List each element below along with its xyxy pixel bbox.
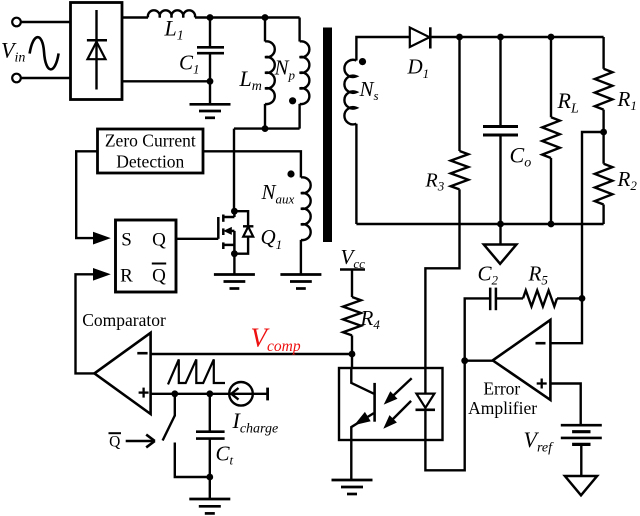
wire R2 bottom lead bbox=[602, 205, 604, 225]
switch blade bbox=[163, 416, 175, 441]
wire Co bottom lead bbox=[499, 135, 501, 224]
ground Vref triangle bbox=[565, 476, 597, 495]
svg-text:R5: R5 bbox=[528, 262, 549, 288]
wire R3 top lead bbox=[458, 37, 460, 151]
svg-text:Q: Q bbox=[152, 230, 166, 251]
ground under Naux bbox=[280, 275, 321, 289]
wire ZCD to S input bbox=[76, 151, 97, 238]
wire switch top lead bbox=[174, 394, 176, 416]
svg-text:R4: R4 bbox=[360, 306, 381, 332]
wire R4 to opto bbox=[351, 335, 353, 368]
wire drain vertical bbox=[233, 129, 235, 212]
resistor R3 bbox=[451, 151, 469, 189]
svg-text:R2: R2 bbox=[617, 167, 638, 193]
wire Np top lead bbox=[298, 18, 300, 42]
current source terminal tick bbox=[266, 388, 269, 401]
opto light arrow upper bbox=[392, 378, 412, 397]
opto LED diode bbox=[416, 394, 436, 410]
svg-text:R1: R1 bbox=[617, 87, 637, 113]
node Ct bottom junction bbox=[206, 474, 213, 481]
wire bottom input bbox=[21, 77, 70, 79]
resistor R5 bbox=[523, 290, 557, 306]
comparator minus sign bbox=[137, 352, 147, 355]
node Ct tap junction bbox=[206, 390, 213, 397]
winding Naux bbox=[301, 177, 311, 240]
svg-text:C2: C2 bbox=[478, 262, 499, 288]
resistor R1 bbox=[595, 69, 613, 110]
svg-text:Q: Q bbox=[152, 266, 166, 287]
svg-text:Zero Current: Zero Current bbox=[105, 131, 196, 151]
winding Np bbox=[300, 41, 310, 104]
wire error amp output bbox=[465, 360, 493, 362]
terminal top input bbox=[12, 18, 21, 27]
wire error amp output to C2 bbox=[465, 298, 491, 360]
wire Vcomp net bbox=[151, 353, 352, 355]
svg-text:D1: D1 bbox=[407, 55, 430, 82]
node C1 bottom junction bbox=[207, 78, 214, 85]
svg-text:Q: Q bbox=[109, 434, 120, 451]
current source arrowhead bbox=[231, 388, 238, 400]
svg-text:C1: C1 bbox=[179, 51, 200, 77]
node RL bottom junction bbox=[548, 221, 555, 228]
node Naux phase dot bbox=[287, 170, 294, 177]
bridge rectifier box bbox=[71, 3, 123, 100]
error amp plus sign bbox=[537, 379, 547, 389]
wire C2 to R5 bbox=[496, 297, 523, 299]
error amp minus sign bbox=[536, 342, 546, 345]
svg-text:R3: R3 bbox=[425, 170, 445, 194]
node Q1 drain junction bbox=[231, 208, 238, 215]
winding Ns bbox=[344, 60, 356, 125]
wire Np bottom lead bbox=[298, 104, 300, 129]
AC source sine symbol bbox=[30, 37, 59, 69]
SR flip-flop box bbox=[116, 220, 177, 292]
wire Ct bottom lead bbox=[209, 439, 211, 499]
wire Lm top lead bbox=[264, 18, 266, 42]
svg-text:Np: Np bbox=[274, 56, 296, 83]
opto light arrow lower bbox=[392, 401, 412, 421]
wire Naux bottom lead bbox=[300, 240, 302, 275]
wire comparator plus input bbox=[151, 393, 268, 395]
comparator plus sign bbox=[139, 388, 149, 398]
inductor L1 bbox=[148, 10, 195, 17]
svg-text:Q1: Q1 bbox=[261, 225, 283, 252]
svg-text:S: S bbox=[121, 230, 132, 251]
node C1 top junction bbox=[207, 14, 214, 21]
Qbar arrowhead bbox=[146, 435, 155, 448]
wire switch bottom to Ct bottom bbox=[175, 443, 210, 478]
wire bridge bottom to C1 bbox=[122, 80, 210, 82]
optocoupler box U2 bbox=[339, 368, 443, 440]
wire top input bbox=[21, 21, 70, 23]
node RL top junction bbox=[548, 34, 555, 41]
opto phototransistor bbox=[351, 368, 374, 480]
svg-text:Vref: Vref bbox=[524, 427, 555, 456]
bridge rectifier diode bbox=[87, 10, 107, 90]
svg-text:Vcc: Vcc bbox=[341, 245, 366, 271]
Q1 body arrow bbox=[223, 227, 232, 235]
wire secondary top rail bbox=[430, 36, 603, 38]
ground output triangle bbox=[484, 245, 517, 264]
node Q1 source junction bbox=[231, 250, 238, 257]
wire R1 bottom lead bbox=[602, 110, 604, 132]
resistor RL bbox=[542, 117, 560, 158]
ground under Ct bbox=[189, 499, 230, 513]
R input arrowhead bbox=[93, 268, 111, 281]
transformer core bbox=[323, 28, 332, 243]
svg-text:Co: Co bbox=[510, 143, 532, 171]
node R3 top junction bbox=[456, 34, 463, 41]
capacitor C2 bbox=[490, 288, 496, 311]
Vcc terminal bar bbox=[340, 268, 365, 271]
svg-text:Vin: Vin bbox=[1, 38, 25, 66]
svg-text:Comparator: Comparator bbox=[82, 310, 166, 330]
node error amp output junction bbox=[461, 357, 468, 364]
node switch tap junction bbox=[171, 390, 178, 397]
wire secondary bottom rail bbox=[356, 223, 603, 225]
wire top rail L1 to Np bbox=[195, 16, 300, 18]
ground under C1 bbox=[190, 104, 231, 118]
wire Ns bottom lead bbox=[355, 124, 357, 224]
svg-text:L1: L1 bbox=[164, 16, 184, 44]
svg-text:Naux: Naux bbox=[261, 180, 295, 207]
node R5 feedback junction bbox=[579, 295, 586, 302]
Q1 body diode bbox=[234, 211, 253, 254]
Qbar arrow to switch bbox=[126, 440, 153, 442]
wire Ct top lead bbox=[209, 394, 211, 432]
inductor Lm winding bbox=[265, 41, 275, 104]
resistor R4 bbox=[343, 297, 361, 335]
wire Vcc to R4 bbox=[351, 270, 353, 298]
wire Q output to gate bbox=[176, 238, 218, 240]
wire R1 top lead bbox=[602, 37, 604, 69]
wire C1 bottom lead bbox=[209, 53, 211, 104]
wire primary bottom bbox=[234, 127, 300, 129]
transistor Q1 MOSFET bbox=[218, 211, 234, 254]
svg-text:Lm: Lm bbox=[239, 66, 262, 94]
wire RL top lead bbox=[550, 37, 552, 117]
node Lm bottom junction bbox=[262, 125, 269, 132]
wire Q1 source to ground bbox=[233, 254, 235, 275]
ground under opto bbox=[332, 480, 373, 494]
wire ZCD to Naux bbox=[203, 151, 301, 177]
capacitor Co bbox=[483, 127, 518, 136]
wire output ground lead bbox=[499, 224, 501, 245]
wire R5 to feedback node bbox=[557, 297, 582, 299]
svg-text:Ns: Ns bbox=[359, 77, 379, 103]
diode D1 bbox=[410, 27, 431, 48]
svg-text:Icharge: Icharge bbox=[232, 408, 279, 437]
svg-text:Amplifier: Amplifier bbox=[468, 398, 537, 418]
capacitor C1 bbox=[197, 47, 224, 53]
ground under Q1 bbox=[214, 275, 255, 289]
svg-text:RL: RL bbox=[557, 88, 579, 117]
node Lm top junction bbox=[262, 14, 269, 21]
sawtooth waveform symbol bbox=[168, 359, 225, 384]
Zero Current Detection box bbox=[98, 129, 204, 173]
wire Ns top lead bbox=[356, 37, 409, 61]
S input arrowhead bbox=[93, 232, 111, 245]
wire LED cathode to error amp output bbox=[425, 361, 464, 471]
svg-text:Error: Error bbox=[483, 379, 520, 399]
node Vcomp R4 junction bbox=[349, 351, 356, 358]
node Ns phase dot bbox=[359, 58, 366, 65]
wire R2 top lead bbox=[602, 132, 604, 164]
wire bridge to L1 bbox=[122, 16, 148, 18]
node Np phase dot bbox=[289, 97, 296, 104]
wire C1 top lead bbox=[209, 18, 211, 48]
current source Icharge circle bbox=[229, 382, 253, 406]
op-amp error amplifier triangle bbox=[493, 320, 551, 400]
wire RL bottom lead bbox=[550, 158, 552, 224]
resistor R2 bbox=[595, 164, 613, 205]
wire Co top lead bbox=[499, 37, 501, 127]
wire plus input to Vref bbox=[550, 384, 580, 426]
node R1 R2 junction bbox=[600, 129, 607, 136]
battery Vref bbox=[561, 425, 602, 444]
terminal bottom input bbox=[12, 74, 21, 83]
comparator triangle bbox=[94, 333, 150, 414]
wire R3 bottom to LED anode bbox=[425, 189, 459, 393]
svg-text:R: R bbox=[120, 266, 133, 287]
wire divider tap to error amp minus bbox=[550, 132, 603, 343]
svg-text:Vcomp: Vcomp bbox=[251, 323, 301, 356]
capacitor Ct bbox=[196, 432, 225, 439]
node Co bottom junction bbox=[497, 221, 504, 228]
svg-text:Detection: Detection bbox=[116, 152, 184, 172]
node Co top junction bbox=[497, 34, 504, 41]
wire Vref to ground bbox=[580, 444, 582, 476]
wire comparator output to R input bbox=[76, 274, 95, 373]
wire Lm bottom lead bbox=[264, 104, 266, 129]
svg-text:Ct: Ct bbox=[216, 442, 234, 468]
opto emitter arrowhead bbox=[354, 412, 371, 425]
